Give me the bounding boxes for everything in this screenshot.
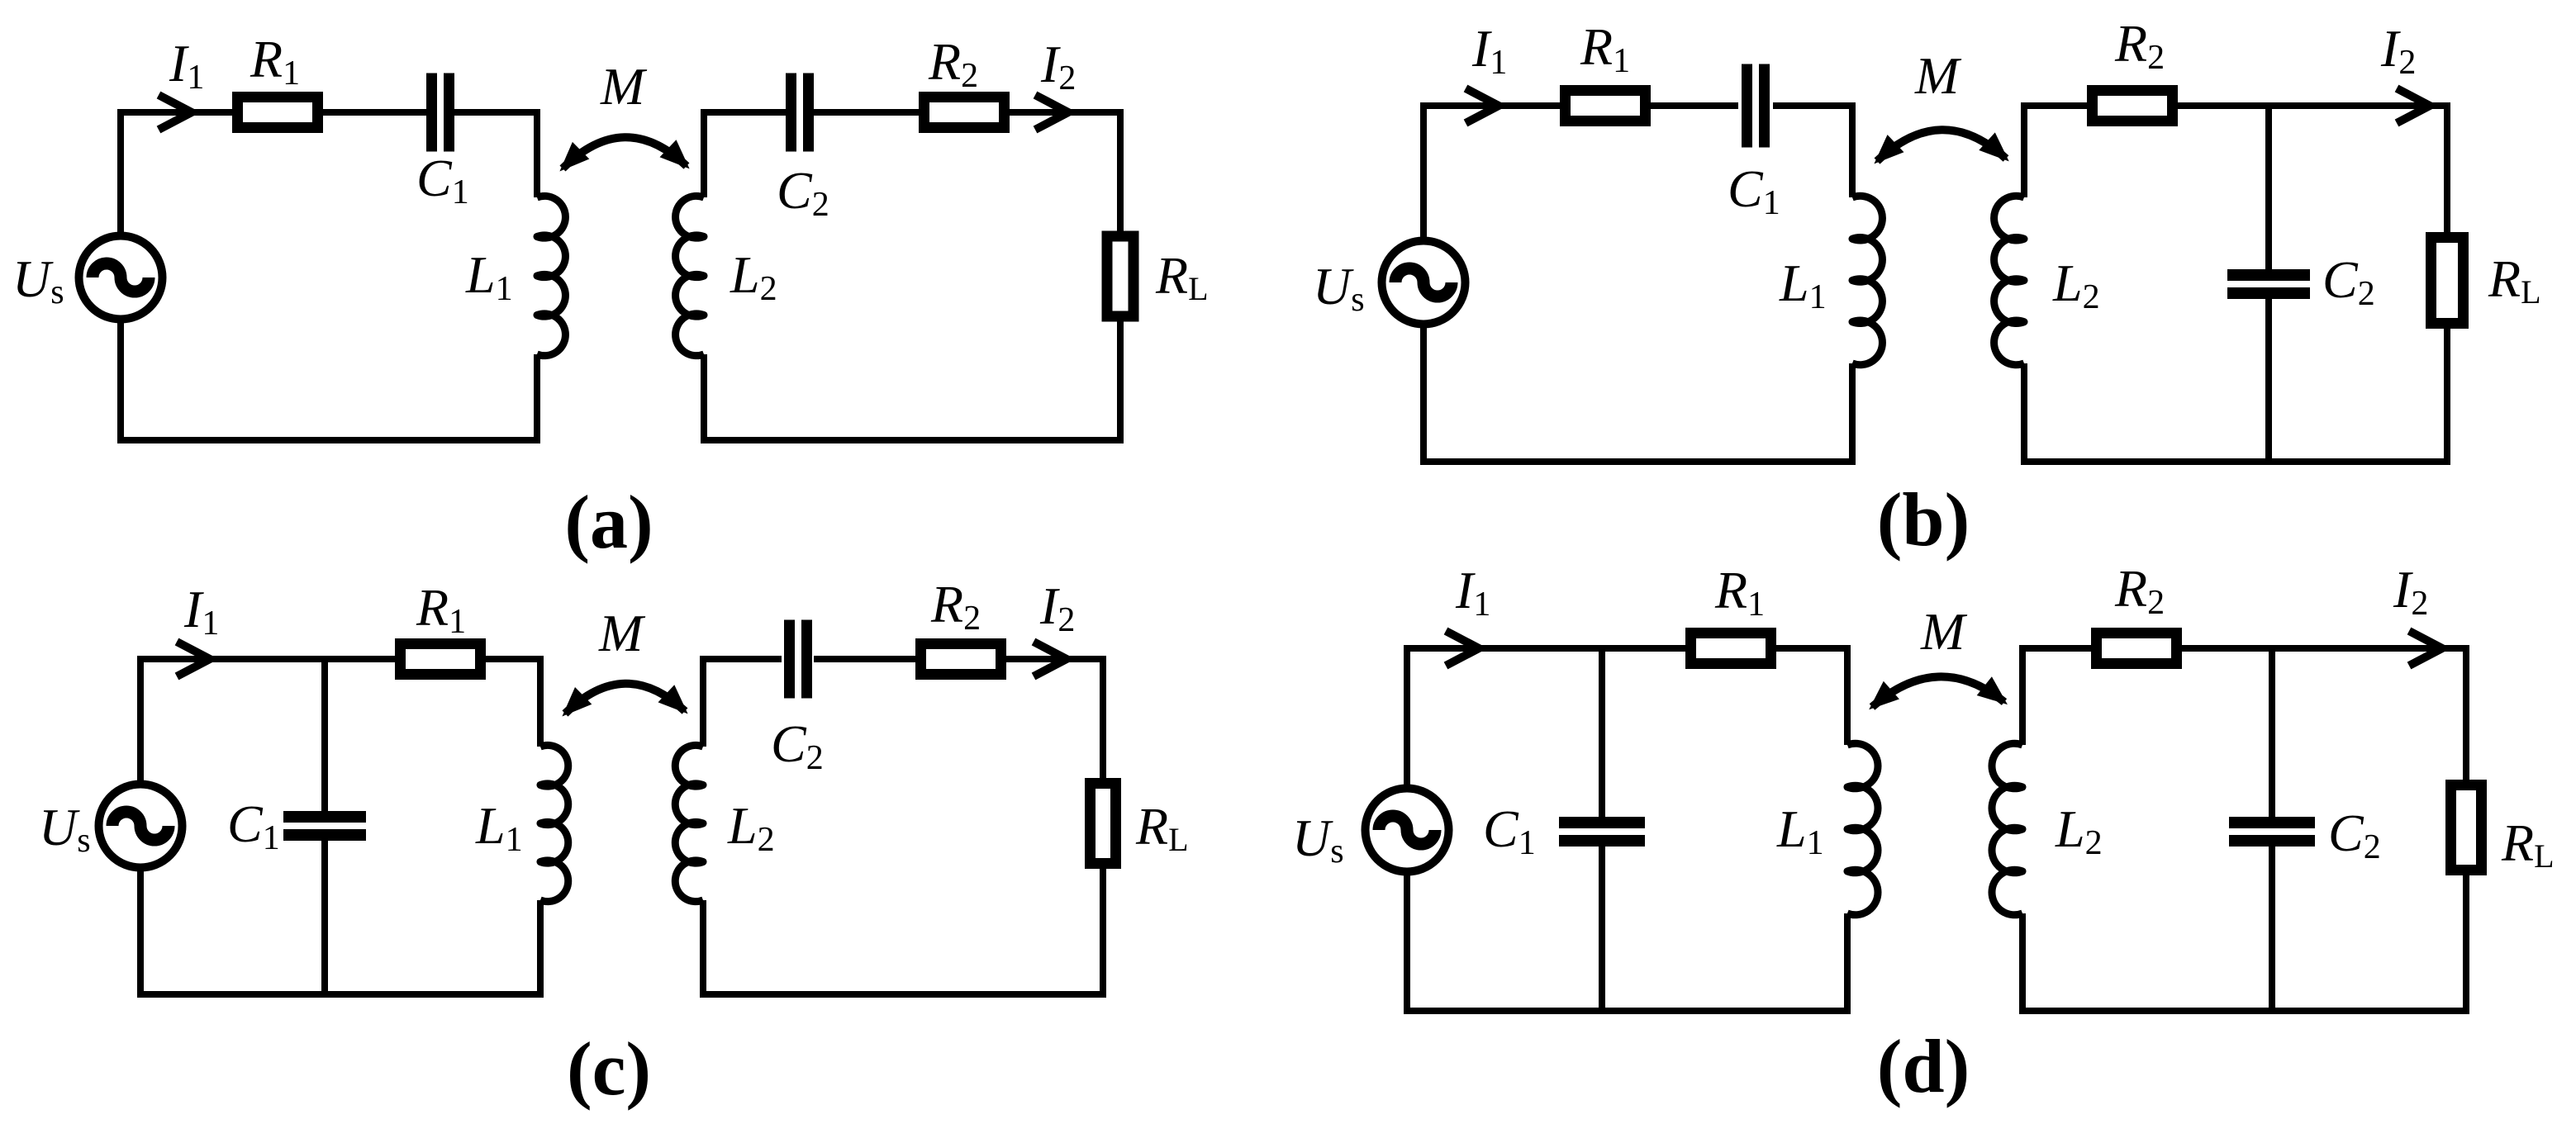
svg-text:M: M	[1914, 46, 1962, 105]
svg-text:(b): (b)	[1877, 477, 1970, 562]
svg-text:(c): (c)	[567, 1027, 651, 1111]
svg-text:(d): (d)	[1877, 1024, 1970, 1108]
svg-text:M: M	[1920, 602, 1968, 661]
svg-text:M: M	[598, 604, 646, 662]
svg-text:(a): (a)	[564, 480, 653, 564]
svg-text:M: M	[600, 57, 648, 116]
